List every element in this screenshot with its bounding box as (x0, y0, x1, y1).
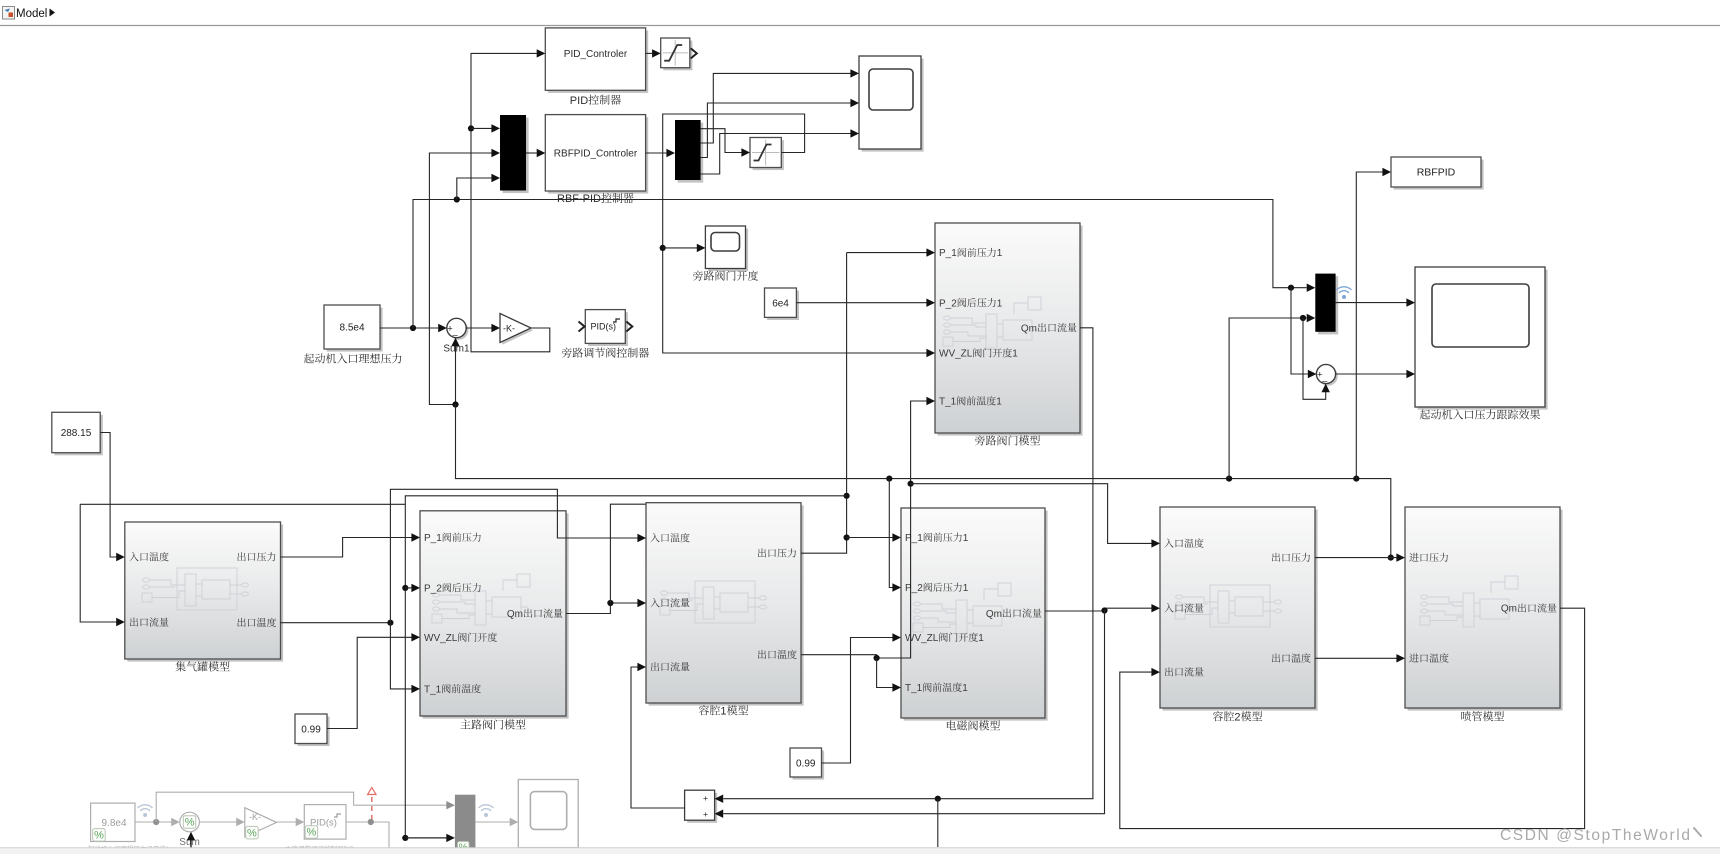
wire 容腔2 出口温度 to 喷管 进口温度 (1315, 657, 1397, 659)
wire 主路阀门 Qm riser over 容腔1 corner (610, 504, 645, 603)
breadcrumb arrow (50, 9, 56, 17)
svg-text:1: 1 (963, 583, 969, 594)
input chevron of PID(s) (579, 322, 585, 332)
wire saturation 2 output loop to 旁路阀门模型 WV_ZL input (663, 114, 927, 353)
wire demux output 2 to scope input 1 (701, 73, 851, 143)
faded constant block 9.8e4 (91, 803, 135, 841)
scope block 旁路阀门开度 (708, 229, 748, 272)
wire branch down to 电磁阀 T_1 input (877, 658, 893, 688)
wire plenum pressure into faded mux input 2 (black) (405, 837, 446, 839)
label 容腔1模型 (699, 705, 709, 715)
faded sum block Sum (180, 812, 200, 832)
wire 主路阀门 Qm output to 容腔1 入口流量 (566, 603, 638, 614)
wire 容腔1 出口压力 riser (801, 253, 847, 554)
status bar (0, 848, 1720, 854)
svg-text:_: _ (1321, 372, 1328, 382)
wire 6e4 to 旁路阀门模型 P_2 input (796, 302, 926, 304)
svg-text:-K-: -K- (249, 812, 261, 822)
wire 电磁阀 Qm output to 容腔2 入口流量 (1045, 608, 1152, 611)
svg-text:%: % (94, 830, 104, 842)
svg-text:1: 1 (996, 397, 1002, 408)
svg-text:+: + (703, 793, 708, 803)
subsystem block PID_Controler (548, 31, 648, 93)
svg-text:WV_ZL: WV_ZL (424, 633, 458, 644)
wire plenum pressure branch to 电磁阀 P_1 input (847, 537, 893, 539)
wire gain output loop up to PID_Controler input (471, 53, 550, 351)
svg-text:P_2: P_2 (939, 298, 957, 309)
svg-text:1: 1 (997, 298, 1003, 309)
faded wire 9.8e4 to Sum (135, 821, 172, 823)
svg-text:-K-: -K- (503, 324, 515, 334)
unconnected output chevron of saturation (691, 48, 697, 58)
svg-text:0.99: 0.99 (796, 758, 816, 769)
add block (flow sum) (687, 793, 717, 823)
wire 集气罐 出口温度 junction (281, 622, 391, 624)
wire 288.15 to 集气罐 入口温度 (100, 433, 116, 558)
svg-text:Qm: Qm (986, 609, 1002, 620)
red dashed arrow annotation (371, 793, 373, 820)
faded PID(s) block (304, 805, 346, 840)
faded wire gray mux to scope (475, 821, 510, 823)
svg-text:Model: Model (16, 8, 47, 20)
wire plenum pressure to 旁路阀门模型 P_1 input (847, 252, 927, 254)
breadcrumb toolbar bar (0, 0, 1720, 25)
wire 旁路阀门 Qm output down to add block input 1 (723, 328, 1093, 799)
svg-text:_: _ (452, 326, 459, 336)
svg-text:RBFPID_Controler: RBFPID_Controler (554, 149, 638, 160)
wire tank temperature down to 主路阀门模型 T_1 (390, 623, 411, 689)
label 起动机入口压力跟踪效果 (1420, 409, 1430, 419)
constant block 288.15 (54, 415, 102, 455)
label 集气罐模型 (175, 661, 185, 671)
saturation block after PID_Controler (663, 41, 692, 71)
wire Sum1 output to gain (466, 327, 491, 329)
constant block 6e4 (767, 291, 799, 320)
wire tank return down to 集气罐 出口流量 input (80, 504, 116, 622)
wire demux output 1 to saturation 2 (701, 129, 742, 153)
wire plenum pressure branch left and down to faded mux (405, 496, 846, 838)
svg-text:CSDN @StopTheWorld: CSDN @StopTheWorld (1500, 827, 1692, 844)
wire reference branch to Sum2 plus input (1291, 288, 1308, 374)
wire stub going off-canvas from add input line (937, 799, 939, 847)
faded mux (gray) (455, 795, 476, 848)
display block RBFPID (1394, 160, 1484, 190)
svg-text:Qm: Qm (507, 609, 523, 620)
label 旁路调节阀控制器 (562, 348, 572, 358)
faded wifi badge near gray mux (479, 805, 493, 811)
subsystem block 容腔2模型 (1163, 510, 1318, 711)
wire PID_Controler output to saturation (646, 52, 653, 54)
wire 容腔2 出口压力 to 喷管 进口压力 (1315, 557, 1397, 559)
svg-text:Qm: Qm (1021, 323, 1037, 334)
PID(s) block 旁路调节阀控制器 (588, 312, 628, 346)
sum block Sum2 (1319, 367, 1338, 386)
black feedback arrow into faded Sum bottom (190, 840, 192, 854)
wire demux output 4 to scope input 3 (701, 134, 851, 175)
mux Mux1 (3 inputs) (500, 115, 529, 193)
label 喷管模型 (1461, 711, 1471, 721)
wire pressure line down to 电磁阀 P_2 input (889, 479, 892, 588)
svg-text:1: 1 (720, 705, 726, 717)
constant block 0.99 (solenoid valve opening) (793, 751, 825, 780)
wire gain signal branch to Mux1 input 1 (471, 127, 492, 129)
scope block (3-input scope, top right) (862, 59, 924, 152)
demux after RBFPID_Controler (675, 120, 703, 183)
label 电磁阀模型 (947, 720, 956, 730)
wire branch right to 容腔2 入口温度 (911, 484, 1152, 544)
svg-text:PID: PID (570, 95, 588, 107)
svg-text:+: + (703, 809, 708, 819)
label 起动机入口理想压力 (304, 353, 314, 363)
wire pressure feedback up into Sum1 minus input (455, 346, 457, 405)
faded wifi badge near 9.8e4 (138, 805, 152, 811)
svg-text:PID(s): PID(s) (591, 322, 617, 332)
wire branch to scope 旁路阀门开度 (663, 247, 697, 249)
faded wire 9.8e4 branch to gray mux input 1 (156, 792, 446, 822)
svg-text:RBFPID: RBFPID (1417, 167, 1456, 179)
mux Mux2 (2 inputs) (1315, 274, 1338, 335)
svg-text:1: 1 (963, 533, 969, 544)
label 旁路阀门开度 (693, 271, 703, 281)
wire 集气罐 出口压力 to 主路阀门模型 P_1 (281, 538, 412, 558)
svg-text:PID_Controler: PID_Controler (564, 49, 628, 60)
wire pressure feedback main line y=478 across canvas (456, 405, 1391, 558)
svg-text:%: % (185, 817, 195, 829)
wire 0.99 to 主路阀门模型 WV_ZL input (327, 637, 412, 728)
subsystem block 旁路阀门模型 (938, 226, 1083, 436)
label 主路阀门模型 (460, 719, 470, 729)
label 容腔2模型 (1213, 711, 1223, 721)
wire feedback into Sum2 minus input (1303, 318, 1326, 399)
svg-text:9.8e4: 9.8e4 (102, 818, 127, 829)
wire 电磁阀 Qm branch down to add block input 2 (723, 610, 1104, 814)
subsystem block 主路阀门模型 (423, 513, 569, 718)
svg-text:T_1: T_1 (939, 397, 957, 408)
svg-text:%: % (307, 827, 317, 839)
svg-text:P_1: P_1 (939, 248, 957, 259)
faded wire Sum to gain (199, 821, 236, 823)
wire 8.5e4 to Sum1 (380, 327, 439, 329)
faded wire gain to PID(s) (277, 821, 297, 823)
wire Sum2 output to tracking scope input 2 (1336, 373, 1407, 375)
svg-text:2: 2 (1234, 711, 1240, 723)
output chevron of PID(s) (626, 322, 632, 332)
svg-text:0.99: 0.99 (301, 724, 321, 735)
saturation block after demux (753, 140, 784, 170)
simulink model icon (3, 7, 15, 20)
svg-text:P_1: P_1 (424, 533, 442, 544)
subsystem block 集气罐模型 (127, 525, 283, 662)
wire plenum pressure to 主路阀门模型 P_2 input (405, 587, 411, 589)
subsystem block 喷管模型 (1408, 510, 1563, 711)
svg-text:T_1: T_1 (905, 683, 923, 694)
svg-text:1: 1 (997, 248, 1003, 259)
faded scope block (518, 780, 578, 848)
svg-text:P_2: P_2 (905, 583, 923, 594)
wire Mux1 output to RBFPID_Controler (526, 152, 537, 154)
wire tank return line y=504 (80, 503, 405, 505)
svg-text:P_1: P_1 (905, 533, 923, 544)
gain block -K- (502, 316, 533, 345)
wire Mux2 output to tracking scope input 1 (1336, 302, 1407, 304)
wire 喷管 Qm feedback to 容腔2 出口流量 (1120, 608, 1585, 828)
wire add block output to 容腔1 出口流量 (631, 667, 685, 808)
wire reference branch to Mux1 input 3 (457, 178, 492, 200)
wire RBFPID_Controler output to demux (646, 152, 667, 154)
svg-text:WV_ZL: WV_ZL (939, 349, 973, 360)
wire demux output 3 to scope input 2 (701, 103, 851, 158)
svg-text:288.15: 288.15 (61, 428, 92, 439)
subsystem block 容腔1模型 (649, 505, 804, 705)
svg-text:T_1: T_1 (424, 684, 442, 695)
wire pressure branch up to RBFPID display (1356, 172, 1382, 479)
svg-text:6e4: 6e4 (772, 298, 789, 309)
wire tank temperature riser to 容腔1 入口温度 (390, 489, 637, 622)
sum block Sum1 (449, 321, 468, 340)
signal logging wifi badge at Mux2 output (1337, 287, 1351, 293)
scope block 起动机入口压力跟踪效果 (1418, 270, 1548, 410)
constant block 8.5e4 (327, 308, 383, 352)
svg-text:P_2: P_2 (424, 583, 442, 594)
wire 容腔1 出口温度 junction path (801, 401, 927, 658)
svg-text:Qm: Qm (1501, 604, 1517, 615)
svg-text:1: 1 (962, 683, 968, 694)
subsystem block RBFPID_Controler (548, 117, 648, 193)
constant block 0.99 (main valve opening) (298, 717, 330, 747)
svg-text:8.5e4: 8.5e4 (340, 323, 365, 334)
wire reference riser to y=199 line across to Mux2 input 1 (413, 200, 1307, 329)
wire pressure feedback riser to Mux1 input 2 (429, 153, 491, 405)
wire measured pressure to Mux2 input 2 (1229, 318, 1306, 479)
svg-text:1: 1 (1012, 349, 1018, 360)
wire 0.99 to 电磁阀 WV_ZL input (822, 638, 893, 764)
faded wire PID(s) output going down off-canvas (346, 822, 389, 848)
label 旁路阀门模型 (975, 435, 985, 445)
svg-text:1: 1 (978, 633, 984, 644)
faded gain block (245, 808, 277, 837)
subsystem block 电磁阀模型 (904, 511, 1048, 721)
svg-text:%: % (247, 827, 257, 839)
